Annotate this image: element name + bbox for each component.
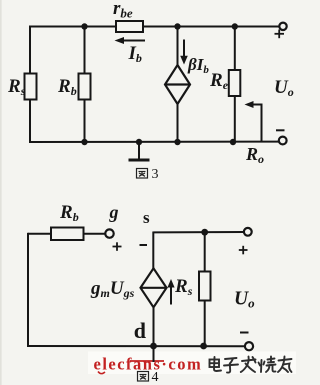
- dependent current source diamond (beta*I_b): [165, 65, 190, 104]
- svg-text:d: d: [134, 318, 146, 343]
- svg-text:s: s: [143, 208, 150, 227]
- label R_b (fig4): [59, 202, 79, 224]
- label U_o (fig4): [234, 289, 255, 311]
- polarity + (below g): [113, 242, 122, 251]
- svg-text:3: 3: [152, 167, 159, 182]
- node: R_e top junction: [232, 23, 238, 29]
- wire: bottom rail fig3: [30, 141, 279, 143]
- svg-text:g: g: [109, 202, 119, 222]
- label U_o (fig3): [274, 77, 294, 99]
- label g: [109, 202, 119, 222]
- label r_be: [113, 0, 133, 21]
- wire: resistor branch upper (fig4): [204, 232, 206, 272]
- polarity - (bottom right, fig3): [276, 129, 285, 131]
- resistor R_b fig4 (horizontal body): [51, 228, 84, 241]
- 烧: [260, 360, 263, 372]
- current arrow I_b (pointing left): [115, 37, 146, 44]
- node: resistor bottom junction (fig4): [200, 343, 207, 350]
- label I_b: [128, 43, 142, 65]
- resistor R_b (body): [79, 74, 91, 100]
- wire: stub below d node: [153, 346, 155, 362]
- resistor body (fig4 right, R_s): [199, 272, 211, 301]
- label R_b: [57, 76, 77, 98]
- polarity + (top right): [275, 30, 285, 39]
- resistor R_s (body): [25, 74, 37, 100]
- resistor R_e (body): [229, 70, 241, 96]
- wire: left rail fig4: [27, 233, 29, 347]
- label beta*I_b: [187, 55, 209, 76]
- dependent source diamond g_m*U_gs: [141, 268, 167, 307]
- label R_s (fig4): [174, 276, 193, 298]
- R_o measuring arrow (bent, pointing left): [245, 101, 262, 142]
- wire: diamond bottom to bottom rail: [153, 307, 155, 346]
- label R_e: [209, 70, 229, 92]
- node: fig4 top junction: [201, 229, 208, 236]
- node: R_b bottom junction: [81, 139, 87, 145]
- caption 图 3: [137, 169, 148, 179]
- wire: resistor branch lower (fig4): [204, 301, 206, 347]
- caption 图 4: [138, 372, 149, 382]
- wire: top rail fig4 (s corner to output): [153, 231, 244, 233]
- label s: [143, 208, 150, 227]
- wire: R_e branch upper: [234, 27, 236, 71]
- wire: from left corner to R_b: [28, 233, 51, 235]
- polarity - (left of s corner): [140, 244, 148, 246]
- label R_s: [7, 76, 26, 98]
- watermark 电子发烧友 (gray): [210, 357, 292, 373]
- wire: R_b to g terminal: [84, 233, 106, 235]
- node: source branch top junction: [174, 23, 180, 29]
- polarity + (fig4 top right): [239, 246, 248, 255]
- terminal: top right output: [279, 23, 286, 30]
- label g_m U_gs: [90, 278, 135, 300]
- node: R_e bottom junction: [230, 139, 236, 145]
- node: source branch bottom junction: [174, 139, 180, 145]
- wire: top rail right of r_be: [143, 26, 280, 28]
- terminal g: [105, 229, 113, 237]
- svg-text:4: 4: [152, 370, 159, 385]
- wire: dependent source branch upper: [177, 27, 179, 66]
- watermark band: [88, 352, 296, 375]
- node: d junction: [150, 343, 157, 350]
- terminal: bottom right output: [279, 137, 287, 145]
- wire: bottom rail fig4: [28, 345, 245, 347]
- current arrow beta*I_b (pointing down): [180, 40, 188, 65]
- wire: top rail left of r_be: [30, 26, 116, 28]
- node: R_b top junction: [81, 23, 87, 29]
- wire: left rail lower: [29, 100, 31, 144]
- 发: [242, 360, 256, 362]
- terminal: fig4 bottom right output: [245, 342, 253, 350]
- wire: R_b branch lower: [84, 100, 86, 143]
- wire: s corner down to source diamond: [152, 232, 154, 269]
- resistor r_be (horizontal body): [116, 21, 143, 32]
- scan artifact: left edge shading: [0, 0, 2, 385]
- ground symbol: [129, 139, 150, 160]
- polarity - (fig4 bottom right): [240, 332, 249, 334]
- 电: [214, 357, 221, 371]
- 友: [279, 359, 292, 361]
- svg-text:elecfans·com: elecfans·com: [94, 355, 203, 374]
- current arrow (pointing up, beside diamond): [167, 279, 174, 305]
- watermark elecfans.com (red): [94, 355, 203, 374]
- wire: dependent source branch lower: [177, 104, 179, 142]
- label R_o: [245, 144, 264, 166]
- wire: R_b branch upper: [84, 27, 86, 74]
- label d: [134, 318, 146, 343]
- terminal: fig4 top right output: [244, 228, 252, 236]
- wire: left rail upper: [29, 26, 31, 74]
- 子: [225, 358, 237, 359]
- wire: R_e branch lower: [234, 96, 236, 142]
